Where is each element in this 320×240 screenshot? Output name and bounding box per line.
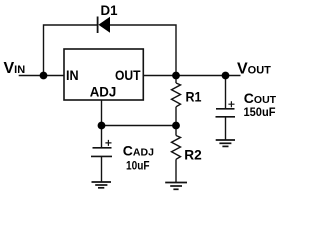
svg-text:COUT: COUT [244, 90, 277, 106]
junction output rail at COUT [222, 72, 230, 80]
junction ADJ node at R2 [172, 122, 180, 130]
capacitor COUT [216, 108, 235, 110]
wire CADJ bottom lead [101, 156, 103, 181]
wire CADJ top lead [101, 126, 103, 148]
junction output rail at R1 [172, 72, 180, 80]
regulator U1 body [64, 49, 143, 100]
wire R1 bottom lead [175, 107, 177, 126]
capacitor CADJ [93, 147, 112, 149]
svg-text:ADJ: ADJ [90, 84, 117, 100]
wire VIN lead to regulator IN [19, 75, 64, 77]
wire COUT top lead [225, 76, 227, 109]
wire OUT rail to VOUT [143, 75, 240, 77]
svg-text:CADJ: CADJ [123, 143, 154, 159]
ground at COUT [216, 139, 235, 141]
wire R2 bottom lead [175, 159, 177, 182]
diode D1 [97, 17, 99, 34]
polarity plus COUT [228, 101, 234, 107]
wire ADJ pin [101, 100, 103, 126]
svg-text:VOUT: VOUT [237, 60, 271, 77]
svg-text:R2: R2 [184, 147, 202, 163]
svg-text:10uF: 10uF [126, 161, 150, 173]
svg-text:D1: D1 [101, 2, 118, 18]
wire COUT bottom lead [225, 117, 227, 140]
ground at CADJ [92, 181, 112, 183]
svg-text:OUT: OUT [115, 67, 141, 83]
svg-text:150uF: 150uF [244, 107, 276, 119]
resistor R2 [172, 136, 181, 160]
resistor R1 [172, 83, 181, 107]
svg-text:R1: R1 [186, 89, 202, 105]
ground at R2 [165, 182, 187, 184]
wire ADJ node row [102, 125, 177, 127]
svg-text:VIN: VIN [4, 60, 26, 77]
polarity plus CADJ [105, 140, 111, 146]
junction input node [40, 72, 48, 80]
junction ADJ node at CADJ [98, 122, 106, 130]
wire input node up to diode row [44, 25, 98, 76]
wire diode anode side down to output rail [110, 25, 176, 76]
wire R1 top lead [175, 76, 177, 84]
svg-text:IN: IN [66, 67, 79, 83]
wire R2 top lead [175, 126, 177, 136]
